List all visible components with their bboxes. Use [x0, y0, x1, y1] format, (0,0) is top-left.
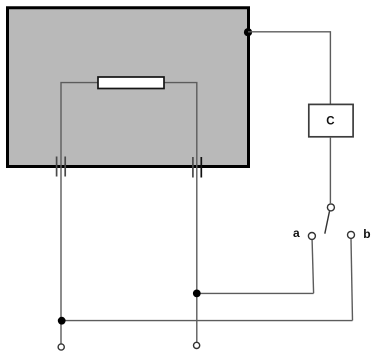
contact a: [308, 233, 315, 240]
wire C to switch pole: [329, 137, 331, 203]
component C box: [309, 104, 353, 136]
contact b: [348, 231, 355, 238]
feedthrough marks left: [57, 157, 66, 177]
enclosure shielded box: [8, 8, 249, 167]
wire from node to component C: [248, 32, 330, 104]
node junction right: [193, 290, 201, 298]
wire right loop from resistor down: [164, 83, 197, 343]
terminal left: [58, 344, 64, 350]
terminal right: [194, 342, 200, 348]
feedthrough marks right: [193, 157, 201, 178]
svg-text:b: b: [363, 227, 370, 241]
switch pole contact: [327, 204, 334, 211]
node junction left: [58, 317, 66, 325]
resistor R: [98, 77, 164, 89]
wire horizontal to contact b: [61, 320, 352, 322]
switch arm: [325, 211, 330, 234]
node junction on box top right: [244, 28, 252, 36]
svg-text:a: a: [293, 226, 300, 240]
wire contact a down: [312, 240, 314, 293]
wire contact b down: [351, 239, 353, 321]
svg-text:C: C: [326, 116, 334, 128]
wire horizontal to contact a: [197, 292, 314, 294]
wire left loop from resistor to bottom terminal: [61, 83, 98, 345]
